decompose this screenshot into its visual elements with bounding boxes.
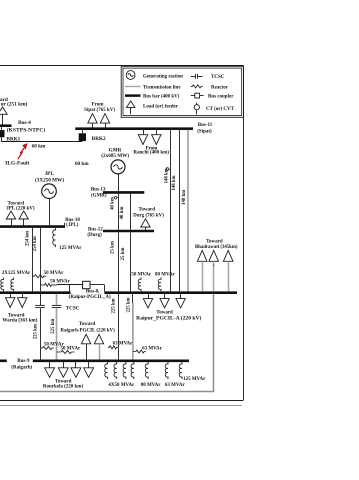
wire 225 km line right 2	[132, 294, 134, 340]
svg-text:Bus bar (400 kV): Bus bar (400 kV)	[143, 95, 180, 100]
svg-text:(Sipat): (Sipat)	[197, 130, 212, 135]
series reactor 63 MVAr jog 1	[108, 346, 118, 349]
series reactor 50 MVAr jog 3	[40, 346, 54, 349]
svg-text:60 km: 60 km	[32, 144, 46, 150]
feeder toward Raipur_PGCIL-A 2	[164, 294, 166, 299]
wire coupler to right bus	[90, 284, 104, 286]
svg-text:JPL: JPL	[45, 171, 55, 177]
breaker BRK1	[0, 130, 5, 137]
svg-text:Bus coupler: Bus coupler	[208, 95, 234, 100]
reactor 63 MVAr on Bus-9	[165, 362, 168, 379]
feeder from Sipat 2	[100, 114, 109, 124]
bus bar Bus-11 Sipat 400 kV	[75, 127, 193, 130]
svg-text:(Durg): (Durg)	[87, 233, 102, 238]
svg-text:Bus-9: Bus-9	[17, 359, 30, 364]
breaker BRK2	[79, 133, 86, 141]
generating station GMR	[111, 160, 125, 174]
svg-text:125 MVAr: 125 MVAr	[183, 377, 206, 382]
legend bus bar symbol	[125, 94, 141, 97]
feeder toward Rourkela 3	[75, 362, 77, 368]
bus bar Raipur-PGCIL 400 kV right	[104, 291, 237, 294]
svg-text:225 km: 225 km	[126, 297, 131, 312]
reactor 125 MVAr on Bus-10	[53, 228, 56, 247]
bus bar Raipur-PGCIL 400 kV left	[0, 291, 71, 294]
wire 148 km line 2 Sipat to Raipur	[179, 130, 181, 292]
wire feeder to Bus-4	[2, 114, 4, 124]
fault arrow 3LG	[18, 143, 28, 159]
svg-text:Transmission line: Transmission line	[143, 86, 181, 91]
feeder toward Raipur_PGCIL-A 3	[180, 294, 182, 299]
svg-text:ur (251 km): ur (251 km)	[1, 101, 28, 108]
svg-text:Bus-11: Bus-11	[198, 123, 213, 128]
svg-text:148 km: 148 km	[172, 175, 177, 190]
wire 254 km line 1 Bus-10 to Raipur bus	[32, 228, 34, 292]
feeder toward Rourkela 1	[49, 362, 51, 368]
faint lower rule	[0, 405, 242, 407]
svg-text:(Raigarh): (Raigarh)	[11, 365, 32, 370]
load feeder toward Bhadrawati 1	[197, 250, 207, 261]
svg-text:40 km: 40 km	[120, 207, 125, 220]
bus bar Bus-4	[0, 124, 12, 127]
wire 25 km line 1 Bus-12 to Raipur bus	[118, 232, 120, 291]
CVT on 40 km line 1	[117, 197, 118, 199]
wire 148 km line 1 Sipat to Raipur	[170, 130, 172, 292]
bus bar Bus-13 GMR	[103, 191, 144, 194]
svg-text:(KSTPS-NTPC): (KSTPS-NTPC)	[7, 127, 46, 134]
svg-text:Raipur_PGCIL-A (220 kV): Raipur_PGCIL-A (220 kV)	[136, 314, 201, 321]
legend TCSC symbol	[191, 76, 195, 78]
reactor 50 MVAr shunt on right bus	[138, 277, 141, 291]
wire transmission line BRK1-BRK2 60 km	[1, 141, 82, 143]
bus bar Bus-9 Raigarh	[0, 359, 189, 362]
figure frame top border	[0, 65, 244, 67]
svg-text:60 km: 60 km	[75, 161, 89, 167]
legend bus coupler symbol	[191, 95, 195, 97]
CVT on 148 km line 1	[169, 169, 170, 171]
svg-text:Warda (363 km): Warda (363 km)	[2, 318, 37, 323]
svg-text:BRK2: BRK2	[92, 136, 106, 142]
wire 40 km line 1 Bus-13 to Bus-12	[118, 194, 120, 230]
svg-text:Rourkela (220 km): Rourkela (220 km)	[43, 384, 84, 389]
svg-text:Load (or) feeder: Load (or) feeder	[143, 104, 179, 109]
wire gray line to bottom bus	[132, 303, 134, 360]
svg-text:63 MVAr: 63 MVAr	[142, 346, 163, 351]
reactor bank 4X50 MVAr unit 3	[123, 362, 126, 379]
svg-text:225 km: 225 km	[51, 319, 56, 334]
svg-text:254 km: 254 km	[33, 236, 38, 251]
load feeder toward JPL 1	[6, 211, 15, 219]
reactor 125 MVAr on Bus-9	[179, 362, 182, 379]
wire GMR to Bus-13	[118, 174, 120, 191]
feeder toward Rourkela 2	[63, 362, 65, 368]
wire 254 km line 2 Bus-10 to Raipur bus	[40, 228, 42, 292]
load feeder toward Bilaspur	[0, 107, 7, 114]
bus bar Bus-12 Durg	[103, 230, 154, 233]
svg-text:80 MVAr: 80 MVAr	[155, 273, 176, 278]
svg-text:(JPL): (JPL)	[66, 223, 79, 228]
legend transmission line symbol	[125, 86, 141, 88]
wire 225 km TCSC line 2 gray	[56, 294, 58, 306]
svg-text:40 km: 40 km	[111, 197, 116, 210]
load feeder toward Bhadrawati 2	[209, 250, 219, 261]
wire Bus-11 to BRK2	[82, 129, 84, 134]
legend generating station symbol	[126, 71, 135, 80]
svg-text:Durg (765 kV): Durg (765 kV)	[133, 213, 164, 218]
load feeder toward Warda 2	[22, 294, 24, 298]
svg-text:CT (or) CVT: CT (or) CVT	[206, 107, 235, 112]
svg-text:25 km: 25 km	[111, 241, 116, 254]
svg-text:50 MVAr: 50 MVAr	[61, 347, 82, 352]
svg-text:254 km: 254 km	[26, 231, 31, 246]
legend load feeder symbol	[127, 101, 135, 107]
wire Bus-4 to BRK1	[1, 127, 3, 130]
legend CT or CVT symbol	[196, 103, 198, 105]
series reactor 50 MVAr jog 1	[32, 275, 46, 278]
svg-text:Bus-4: Bus-4	[18, 120, 31, 126]
load feeder toward JPL 2	[19, 211, 28, 219]
svg-text:225 km: 225 km	[112, 298, 117, 313]
reactor 80 MVAr on Bus-9	[145, 362, 148, 379]
figure frame bottom border	[0, 400, 244, 402]
svg-text:50 MVAr: 50 MVAr	[50, 279, 71, 284]
svg-text:225 km: 225 km	[33, 324, 38, 339]
load feeder toward Durg	[141, 219, 150, 227]
reactor bank 4X50 MVAr unit 4	[131, 362, 134, 379]
svg-text:Reactor: Reactor	[211, 86, 229, 91]
svg-text:Toward: Toward	[139, 207, 156, 212]
figure frame right border	[243, 66, 245, 401]
svg-text:Bhadrawati (345km): Bhadrawati (345km)	[195, 245, 238, 250]
wire 225 km TCSC line 1	[40, 294, 42, 306]
wire BRK1 to line	[1, 137, 3, 141]
svg-text:50 MVAr: 50 MVAr	[44, 271, 65, 276]
svg-text:125 MVAr: 125 MVAr	[59, 246, 82, 251]
svg-text:Ranchi (400 km): Ranchi (400 km)	[133, 151, 169, 156]
feeder toward Raigarh-PGCIL 1	[81, 334, 90, 344]
svg-text:3LG-Fault: 3LG-Fault	[5, 161, 30, 167]
generating station JPL	[42, 184, 57, 199]
svg-text:25 km: 25 km	[121, 248, 126, 261]
reactor 2X125 MVAr unit 2	[11, 278, 14, 292]
wire gray long line bottom horizontal	[0, 391, 214, 393]
wire 25 km line 2 Bus-12 to Raipur bus	[130, 232, 132, 291]
legend box outer frame	[121, 66, 243, 117]
wire JPL to Bus-10	[49, 199, 51, 226]
reactor 80 MVAr shunt on right bus	[158, 277, 161, 291]
svg-text:Bus-13: Bus-13	[91, 188, 106, 193]
svg-text:2X125 MVAr: 2X125 MVAr	[2, 271, 31, 276]
svg-text:(3X250 MW): (3X250 MW)	[35, 176, 64, 183]
svg-text:TCSC: TCSC	[66, 305, 80, 311]
svg-text:Raigarh-PGCIL (220 kV): Raigarh-PGCIL (220 kV)	[60, 329, 115, 334]
feeder from Sipat 1	[88, 114, 97, 124]
svg-text:63 MVAr: 63 MVAr	[113, 342, 134, 347]
svg-text:4X50 MVAr: 4X50 MVAr	[108, 383, 135, 388]
load feeder toward Bhadrawati 3	[223, 250, 233, 261]
bus coupler Bus-8	[83, 281, 90, 288]
svg-text:50 MVAr: 50 MVAr	[131, 273, 152, 278]
series reactor 63 MVAr jog 2	[133, 350, 146, 353]
svg-text:Bus-12: Bus-12	[88, 227, 103, 232]
svg-text:148 km: 148 km	[182, 190, 187, 205]
svg-text:Toward: Toward	[206, 239, 223, 244]
svg-text:Generating station: Generating station	[143, 74, 183, 79]
svg-text:TCSC: TCSC	[211, 75, 225, 80]
svg-text:Toward: Toward	[79, 322, 96, 327]
svg-text:Bus-8,: Bus-8,	[86, 289, 100, 294]
wire left bus riser to coupler	[69, 285, 71, 292]
legend reactor symbol	[191, 85, 203, 88]
svg-text:(2x685 MW): (2x685 MW)	[101, 152, 129, 159]
load feeder toward Warda 1	[10, 294, 12, 298]
wire 225 km line right 1	[118, 294, 120, 360]
wire 148 km line 3 Sipat to Raipur gray	[187, 130, 189, 292]
wire 40 km line 2 Bus-13 to Bus-12	[130, 194, 132, 230]
feeder toward Rourkela 4	[88, 362, 90, 368]
feeder from Ranchi 1	[143, 130, 145, 135]
TCSC capacitor line 2	[52, 304, 62, 306]
TCSC capacitor line 1	[35, 304, 45, 306]
legend box inner frame	[123, 68, 242, 115]
series reactor 50 MVAr jog 4	[57, 350, 75, 353]
reactor 2X125 MVAr unit 1	[1, 278, 4, 292]
feeder toward Raigarh-PGCIL 2	[94, 334, 103, 344]
series reactor 50 MVAr jog 2 to bus coupler	[40, 283, 57, 286]
svg-text:80 MVAr: 80 MVAr	[141, 383, 162, 388]
svg-text:63 MVAr: 63 MVAr	[165, 383, 186, 388]
feeder from Ranchi 2	[156, 130, 158, 135]
svg-text:148 km: 148 km	[164, 168, 169, 183]
bus bar Bus-10 JPL	[0, 225, 65, 228]
reactor bank 4X50 MVAr unit 1	[105, 362, 108, 379]
wire gray long line from Bhadrawati stem down	[213, 294, 215, 392]
svg-text:(GMR): (GMR)	[91, 194, 107, 199]
feeder toward Raipur_PGCIL-A 1	[148, 294, 150, 299]
svg-text:(Raipur-PGCIL_A): (Raipur-PGCIL_A)	[69, 295, 111, 300]
svg-text:Sipat (765 kV): Sipat (765 kV)	[84, 108, 115, 113]
reactor bank 4X50 MVAr unit 2	[114, 362, 117, 379]
